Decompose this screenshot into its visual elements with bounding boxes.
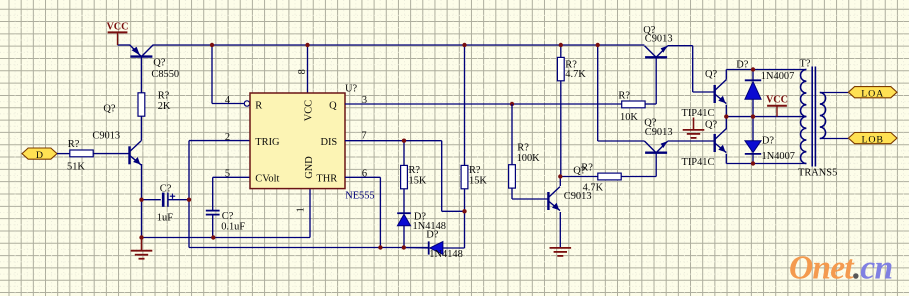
svg-text:D?: D?	[736, 60, 749, 71]
svg-text:R?: R?	[618, 90, 630, 101]
resistor R? 51K	[70, 150, 93, 157]
svg-text:NE555: NE555	[345, 191, 374, 202]
wire CVolt to C 0.1uF	[212, 177, 214, 210]
wire R 4.7K second to Q5 base	[621, 176, 656, 178]
wire Q4 emitter to Q7 base	[668, 45, 693, 47]
svg-text:D?: D?	[426, 230, 439, 241]
op-amp U? NE555 body	[250, 93, 345, 189]
wire Q1 base to R 2K	[140, 57, 142, 93]
wire pin6 THR	[345, 176, 380, 178]
svg-text:THR: THR	[316, 174, 337, 185]
wire pin5 CVolt	[213, 176, 250, 178]
power VCC (left)	[106, 22, 128, 33]
junction C 1uF right / TRIG	[187, 198, 191, 202]
wire center tap row	[726, 116, 806, 118]
junction DIS jog / R 15K second	[462, 209, 466, 213]
junction C 1uF left	[139, 198, 143, 202]
wire R 4.7K first down to node	[560, 81, 562, 177]
svg-text:TIP41C: TIP41C	[682, 108, 715, 119]
wire pin2 TRIG	[189, 140, 250, 142]
pin 4 inversion bubble	[244, 101, 249, 106]
svg-text:D?: D?	[762, 136, 775, 147]
wire Q7 base	[693, 91, 714, 93]
resistor R? 10K	[622, 101, 645, 108]
wire VCC rail to Q1 emitter	[118, 44, 131, 46]
wire down to Q7 base	[692, 46, 694, 92]
junction node Q6 collector	[558, 174, 562, 178]
svg-text:R?: R?	[158, 90, 170, 101]
junction rail / pin8	[305, 43, 309, 47]
wire D 1N4148 second to lower rail	[404, 247, 429, 250]
wire Q7 collector up	[725, 70, 727, 80]
wire to pin4 bubble	[212, 103, 244, 105]
junction center tap / diodes	[751, 114, 755, 118]
resistor R? 15K (first)	[401, 165, 408, 188]
wire R 100K down	[511, 188, 513, 199]
transistor Q? TIP41C (lower)	[715, 129, 727, 153]
wire TRIG-THR lower rail	[189, 247, 429, 249]
wire C 0.1uF to ground rail	[212, 215, 214, 238]
wire pin7 DIS row	[345, 140, 442, 142]
svg-text:100K: 100K	[517, 153, 541, 164]
svg-text:TRIG: TRIG	[255, 137, 280, 148]
wire D 1N4007 first to center tap	[752, 99, 754, 116]
wire center tap to D 1N4007 second	[752, 117, 754, 141]
diode D? 1N4148 (second)	[429, 241, 443, 254]
transistor Q? TIP41C (upper)	[715, 80, 727, 104]
svg-text:C9013: C9013	[645, 127, 673, 138]
svg-text:Q?: Q?	[153, 57, 166, 68]
diode D? 1N4007 (upper)	[745, 80, 761, 99]
svg-text:1uF: 1uF	[157, 212, 173, 223]
wire TRIG vertical	[188, 141, 190, 248]
svg-text:8: 8	[297, 69, 308, 74]
diode D? 1N4148 (first)	[397, 213, 411, 226]
wire rail to R 4.7K first	[560, 45, 562, 57]
transistor Q? C8550 (PNP)	[130, 45, 153, 57]
wire port D to R 51K	[57, 153, 70, 155]
svg-text:5: 5	[225, 168, 230, 179]
diode D? 1N4007 (lower)	[745, 141, 761, 154]
svg-text:1N4007: 1N4007	[762, 151, 795, 162]
svg-text:T?: T?	[800, 59, 811, 70]
wire pin3 Q output row	[345, 103, 622, 105]
svg-text:R: R	[255, 101, 262, 112]
wire pin8 VCC stub	[307, 45, 309, 93]
resistor R? 100K	[509, 165, 516, 188]
wire Q6 emitter down	[559, 212, 561, 248]
wire R 51K to Q2 base	[93, 153, 129, 155]
svg-text:LOB: LOB	[861, 134, 883, 145]
svg-text:C8550: C8550	[151, 69, 179, 80]
svg-text:10K: 10K	[620, 112, 638, 123]
wire to Q6 base	[512, 198, 548, 200]
svg-text:51K: 51K	[67, 162, 85, 173]
ground (mid, flag)	[683, 118, 705, 138]
svg-text:1N4007: 1N4007	[761, 71, 794, 82]
wire THR vertical	[379, 177, 381, 247]
wire Q4 base vertical	[655, 57, 657, 104]
ground (left)	[131, 238, 153, 259]
wire R 2K to Q2 collector	[140, 116, 142, 141]
wire Q7 emitter to Q8 collector	[725, 105, 727, 130]
svg-text:1N4148: 1N4148	[429, 249, 462, 260]
wire to Q5 collector	[598, 140, 645, 142]
svg-text:C9013: C9013	[645, 34, 673, 45]
wire main top rail	[153, 44, 645, 46]
transformer T? TRANS5	[801, 67, 826, 167]
svg-text:Q: Q	[329, 101, 337, 112]
transistor Q? C9013 (top right)	[645, 46, 668, 58]
resistor R? 4.7K (second)	[598, 173, 621, 180]
resistor R? 15K (second)	[461, 165, 468, 188]
svg-text:1: 1	[296, 207, 307, 212]
power VCC (right)	[766, 95, 788, 106]
svg-text:U?: U?	[345, 84, 358, 95]
wire secondary to LOA	[820, 92, 849, 94]
svg-text:4.7K: 4.7K	[565, 69, 586, 80]
junction DIS / R 15K first	[402, 139, 406, 143]
junction center tap / Q7-Q8	[724, 114, 728, 118]
wire VCC right stem	[776, 106, 778, 117]
junction lower rail / THR	[378, 245, 382, 249]
wire to D 1N4148 second anode	[443, 247, 465, 249]
junction ground rail left	[139, 235, 143, 239]
wire secondary to LOB	[820, 138, 849, 140]
capacitor C? 1uF (polarized)	[163, 193, 175, 207]
wire to transformer top	[726, 69, 806, 71]
svg-text:Q?: Q?	[705, 120, 718, 131]
svg-text:4: 4	[225, 95, 231, 106]
svg-text:0.1uF: 0.1uF	[221, 221, 245, 232]
capacitor C? 0.1uF	[206, 211, 220, 215]
junction rail / pin4 branch	[210, 43, 214, 47]
wire pin3 row to R 100K	[511, 104, 513, 165]
transistor Q? C9013 (left)	[130, 141, 142, 165]
svg-text:15K: 15K	[469, 176, 487, 187]
ground (under Q6)	[550, 248, 572, 256]
svg-text:DIS: DIS	[320, 137, 337, 148]
junction ground rail / C 0.1uF	[211, 235, 215, 239]
resistor R? 2K	[138, 93, 145, 116]
svg-text:R?: R?	[517, 143, 529, 154]
svg-text:CVolt: CVolt	[255, 174, 279, 185]
svg-text:VCC: VCC	[766, 95, 788, 106]
transistor Q? C9013 (mid right)	[645, 141, 668, 153]
svg-text:2: 2	[225, 132, 230, 143]
wire DIS to R 15K first	[403, 141, 405, 166]
wire D 1N4007 second to bottom row	[752, 154, 754, 164]
svg-text:15K: 15K	[409, 176, 427, 187]
wire Q6 collector up	[559, 177, 561, 187]
wire VCC stem	[117, 32, 119, 45]
svg-text:TRANS5: TRANS5	[798, 167, 837, 178]
port D	[22, 148, 57, 161]
wire R 10K to Q4 base	[645, 103, 656, 105]
port LOB	[848, 133, 897, 146]
svg-text:R?: R?	[581, 162, 593, 173]
svg-text:LOA: LOA	[861, 88, 884, 99]
svg-text:7: 7	[361, 130, 366, 141]
wire ground rail	[142, 237, 311, 239]
wire pin1 GND stub	[309, 189, 311, 238]
svg-text:VCC: VCC	[106, 22, 128, 33]
svg-text:R?: R?	[68, 139, 80, 150]
wire C 1uF to TRIG node	[168, 199, 189, 201]
wire rail to R 15K second	[464, 45, 466, 165]
wire DIS jog	[442, 210, 465, 212]
svg-text:C?: C?	[160, 184, 172, 195]
svg-text:Q?: Q?	[705, 69, 718, 80]
port LOA	[848, 87, 897, 100]
junction lower rail / D 1N4148	[402, 245, 406, 249]
wire node to D 1N4148 second	[464, 211, 466, 248]
svg-text:2K: 2K	[158, 101, 171, 112]
svg-text:Onet.cn: Onet.cn	[789, 250, 892, 287]
svg-text:Q?: Q?	[103, 103, 116, 114]
junction rail / R 15K second	[462, 43, 466, 47]
wire D 1N4148 to lower rail	[403, 226, 405, 248]
junction bottom row / D 1N4007	[751, 161, 755, 165]
junction rail / drop to Q5	[596, 43, 600, 47]
wire node to R 4.7K second	[561, 176, 598, 178]
wire Q8 emitter down	[725, 154, 727, 164]
wire to C 1uF	[142, 199, 161, 201]
wire rail drop	[597, 45, 599, 141]
svg-text:C9013: C9013	[92, 131, 120, 142]
wire bottom row to transformer	[726, 163, 806, 165]
junction top row / D 1N4007	[751, 67, 755, 71]
wire DIS vertical	[441, 141, 443, 212]
svg-text:VCC: VCC	[304, 100, 315, 121]
svg-text:TIP41C: TIP41C	[682, 157, 715, 168]
junction rail / R 4.7K first	[559, 43, 563, 47]
wire reset branch vertical	[211, 45, 213, 104]
wire R 15K to D 1N4148 first	[403, 189, 405, 213]
wire R 15K second to node	[464, 189, 466, 212]
wire to D 1N4007 first	[752, 70, 754, 81]
svg-text:D: D	[36, 150, 43, 161]
transistor Q? C9013 (third)	[548, 187, 560, 211]
wire Q5 base vertical	[655, 153, 657, 177]
wire Q2 emitter down	[141, 164, 143, 238]
resistor R? 4.7K (first)	[557, 57, 564, 80]
node Q2 collector	[140, 139, 142, 142]
wire Q5 emitter to Q8 base	[668, 140, 714, 142]
svg-text:4.7K: 4.7K	[583, 183, 604, 194]
svg-text:GND: GND	[304, 156, 315, 179]
